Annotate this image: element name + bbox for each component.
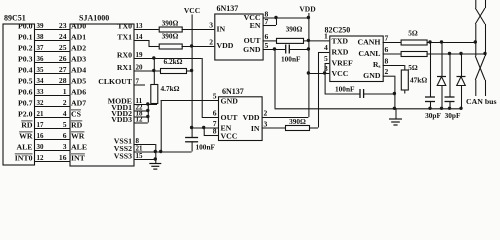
svg-text:AD2: AD2: [71, 44, 86, 53]
wire 89C51 P0.1 (pin 38) to SJA1000 (pin 24): [34, 40, 70, 42]
wire VSS2 (pin21) ground line to C4: [134, 151, 192, 153]
svg-text:P0.7: P0.7: [18, 99, 33, 108]
junction dot VREF-VCC vertical: [323, 71, 326, 74]
svg-text:4: 4: [324, 43, 328, 52]
svg-text:14: 14: [136, 33, 144, 41]
wire VREF stub down to VCC line: [325, 63, 330, 65]
svg-text:RD: RD: [71, 121, 83, 130]
svg-text:CAN bus: CAN bus: [466, 97, 497, 106]
svg-text:16: 16: [59, 153, 67, 162]
wire CLKOUT stub (pin7): [134, 84, 146, 86]
svg-text:CANL: CANL: [358, 49, 380, 58]
svg-text:6N137: 6N137: [222, 87, 244, 96]
svg-text:TX1: TX1: [117, 33, 132, 42]
wire U3 GND pin5 to C2: [263, 49, 286, 51]
svg-text:25: 25: [59, 43, 67, 52]
svg-text:30pF: 30pF: [445, 111, 461, 120]
svg-text:CANH: CANH: [358, 38, 381, 47]
svg-text:23: 23: [59, 21, 67, 30]
svg-text:RD: RD: [21, 121, 33, 130]
wire VSS3 (pin15): [134, 159, 156, 161]
svg-text:AD7: AD7: [71, 99, 86, 108]
wire R4 to VCC rail: [186, 70, 192, 72]
svg-text:RXD: RXD: [332, 48, 349, 57]
junction dot CANL to bus: [483, 52, 486, 55]
wire 89C51 INT0 (pin 12) to SJA1000 (pin 16): [34, 161, 70, 163]
junction dot GND rail: [393, 107, 396, 110]
svg-text:3: 3: [209, 21, 213, 30]
svg-text:30: 30: [37, 143, 45, 151]
svg-text:35: 35: [37, 66, 45, 74]
wire MODE to VDD1/VDD2/VDD3 vertical tie: [147, 104, 149, 123]
svg-text:30pF: 30pF: [425, 111, 441, 120]
capacitor C3 100nF under 82C250: [325, 93, 360, 95]
svg-text:VREF: VREF: [332, 59, 353, 68]
svg-text:INT0: INT0: [15, 154, 33, 163]
junction dot VCC on RX1 line: [190, 69, 193, 72]
wire R9 bottom to C3 ground line: [404, 90, 406, 94]
junction dot C3 to GND vertical: [393, 92, 396, 95]
svg-text:15: 15: [136, 152, 144, 160]
wire VDD1 (pin22): [134, 110, 148, 112]
svg-text:AD1: AD1: [71, 33, 86, 42]
junction dot VSS3: [154, 157, 157, 160]
resistor R5 390ohm pull-up on OUT: [277, 38, 304, 43]
svg-text:WR: WR: [19, 132, 33, 141]
svg-text:3: 3: [63, 142, 67, 151]
svg-text:27: 27: [59, 65, 67, 74]
wire CANL pin6 to R8: [383, 53, 401, 55]
svg-text:24: 24: [59, 32, 67, 41]
wire VCC pin3 from VDD rail: [308, 73, 329, 75]
svg-text:39: 39: [37, 22, 45, 30]
wire 89C51 P0.7 (pin 32) to SJA1000 (pin 2): [34, 106, 70, 108]
junction dot EN-VCC tie U4: [202, 126, 205, 129]
svg-text:RX1: RX1: [117, 63, 132, 72]
VCC vertical rail down to U4 EN line: [191, 15, 193, 128]
svg-text:4.7kΩ: 4.7kΩ: [161, 84, 180, 93]
svg-text:17: 17: [37, 121, 45, 129]
svg-text:ALE: ALE: [71, 143, 87, 152]
wire R7 to twisted pair: [427, 42, 476, 44]
resistor R3 4.7kohm vertical RX1 to MODE line: [153, 71, 155, 85]
wire 89C51 P0.6 (pin 33) to SJA1000 (pin 1): [34, 95, 70, 97]
svg-text:5Ω: 5Ω: [408, 63, 418, 72]
svg-text:EN: EN: [250, 21, 261, 30]
resistor R8 5ohm in CANL line: [401, 52, 427, 57]
svg-text:4: 4: [63, 109, 67, 118]
wire TX1 (pin14) jog down: [134, 40, 149, 42]
ground symbol under SJA1000: [155, 162, 157, 165]
svg-text:5Ω: 5Ω: [408, 29, 418, 38]
junction dot VCC at U4 EN line: [190, 126, 193, 129]
wire R2 to 6N137 U3 pin2, VCC junction: [182, 46, 215, 48]
wire R8 to twisted pair: [427, 53, 485, 55]
wire U3 OUT pin6 to R5 and 82C250 TXD: [263, 40, 276, 42]
ground symbol under rail: [395, 108, 397, 118]
svg-text:P0.6: P0.6: [18, 88, 33, 97]
wire 89C51 WR (pin 16) to SJA1000 (pin 6): [34, 139, 70, 141]
wire 89C51 ALE (pin 30) to SJA1000 (pin 3): [34, 150, 70, 152]
wire Rs pin8 to R9: [383, 65, 405, 67]
svg-text:VCC: VCC: [221, 132, 238, 141]
svg-text:P0.3: P0.3: [18, 55, 33, 64]
svg-text:IN: IN: [251, 124, 260, 133]
wire U4 GND pin5 to SJA ground: [161, 100, 218, 102]
svg-text:36: 36: [37, 55, 45, 63]
wire 89C51 P0.5 (pin 34) to SJA1000 (pin 28): [34, 84, 70, 86]
svg-text:2: 2: [264, 109, 268, 118]
wire 89C51 P2.0 (pin 21) to SJA1000 (pin 4): [34, 117, 70, 119]
svg-text:TX0: TX0: [117, 22, 132, 31]
wire GND drop to VSS rail: [160, 100, 162, 152]
svg-text:390Ω: 390Ω: [162, 32, 179, 41]
junction dot U3 GND to isolated ground: [273, 47, 276, 50]
capacitor C2 100nF plates: [285, 45, 287, 54]
svg-text:82C250: 82C250: [325, 26, 351, 35]
svg-text:GND: GND: [243, 45, 261, 54]
wire U3 EN pin7 tie to VCC pin8: [263, 25, 276, 27]
junction dot C2-VDD: [307, 47, 310, 50]
svg-text:GND: GND: [363, 71, 381, 80]
svg-text:2: 2: [63, 98, 67, 107]
wire 89C51 P0.2 (pin 37) to SJA1000 (pin 25): [34, 51, 70, 53]
svg-text:P0.1: P0.1: [18, 33, 33, 42]
wire R6 to RXD vertical: [309, 127, 318, 129]
svg-text:VDD3: VDD3: [111, 115, 132, 124]
capacitor C6 30pF on CANL: [448, 52, 451, 55]
wire ground rail: [275, 108, 462, 110]
svg-text:Rs: Rs: [373, 60, 381, 70]
svg-text:390Ω: 390Ω: [162, 19, 179, 28]
wire MODE (pin11) line: [134, 104, 158, 106]
svg-text:GND: GND: [221, 97, 239, 106]
svg-text:6: 6: [213, 109, 217, 118]
svg-text:47kΩ: 47kΩ: [410, 76, 427, 85]
svg-text:13: 13: [136, 22, 144, 30]
junction dot on RX1 line: [152, 69, 155, 72]
junction dot GND return: [159, 150, 162, 153]
svg-text:6: 6: [385, 45, 389, 54]
svg-text:37: 37: [37, 44, 45, 52]
svg-text:AD5: AD5: [71, 77, 86, 86]
wire VSS ground vertical: [155, 144, 157, 163]
svg-text:TXD: TXD: [332, 37, 349, 46]
svg-text:P0.5: P0.5: [18, 77, 33, 86]
resistor R4 6.2kohm in RX1 line: [161, 69, 187, 74]
wire 89C51 P0.4 (pin 35) to SJA1000 (pin 27): [34, 73, 70, 75]
svg-text:INT: INT: [71, 154, 86, 163]
wire CANH pin7 to R7: [383, 42, 401, 44]
junction dot MODE-VDD tie: [146, 102, 149, 105]
wire ground drop from U3 GND to CAN ground rail: [274, 49, 276, 108]
svg-text:8: 8: [385, 56, 389, 65]
svg-text:7: 7: [385, 34, 389, 43]
svg-text:AD3: AD3: [71, 55, 86, 64]
svg-text:RX0: RX0: [117, 51, 132, 60]
wire R3 bottom to MODE line: [153, 103, 155, 105]
wire 82C250 GND pin2 down to ground rail: [383, 75, 395, 77]
svg-text:AD6: AD6: [71, 88, 86, 97]
resistor R6 390ohm in RXD line: [286, 126, 310, 131]
wire 89C51 P0.3 (pin 36) to SJA1000 (pin 26): [34, 62, 70, 64]
wire U3 VCC pin8 to VDD rail: [263, 17, 309, 19]
svg-text:38: 38: [37, 33, 45, 41]
svg-text:2: 2: [385, 67, 389, 76]
svg-text:7: 7: [136, 77, 140, 85]
svg-text:VCC: VCC: [332, 69, 349, 78]
diode D1 transient protection on CANH: [440, 40, 443, 43]
svg-text:5: 5: [213, 92, 217, 101]
twisted pair CAN bus wires: [475, 0, 477, 8]
junction dot EN-VCC: [274, 16, 277, 19]
VDD vertical rail: [308, 13, 310, 117]
svg-text:P0.0: P0.0: [18, 22, 33, 31]
svg-text:6N137: 6N137: [217, 4, 239, 13]
svg-text:16: 16: [37, 132, 45, 140]
svg-text:VDD: VDD: [299, 5, 316, 14]
wire divider vertical RX0 to RX1 to R3: [153, 58, 155, 71]
svg-text:2: 2: [209, 38, 213, 47]
svg-text:OUT: OUT: [244, 36, 262, 45]
svg-text:VDD: VDD: [243, 113, 260, 122]
svg-text:3: 3: [264, 119, 268, 128]
junction dot VCC-VDD rail: [307, 71, 310, 74]
svg-text:32: 32: [37, 99, 45, 107]
IC SJA1000 CAN controller box: [70, 24, 134, 166]
svg-text:28: 28: [59, 76, 67, 85]
wire 89C51 RD (pin 17) to SJA1000 (pin 5): [34, 128, 70, 130]
junction dot VDD2: [146, 115, 149, 118]
svg-text:390Ω: 390Ω: [286, 25, 303, 34]
wire U4 VDD pin2 from VDD rail: [262, 117, 309, 119]
svg-text:390Ω: 390Ω: [289, 117, 306, 126]
svg-text:100nF: 100nF: [196, 143, 216, 152]
svg-text:1: 1: [63, 87, 67, 96]
svg-text:P0.2: P0.2: [18, 44, 33, 53]
svg-text:VSS3: VSS3: [114, 152, 132, 161]
svg-text:5: 5: [265, 41, 269, 50]
svg-text:5: 5: [324, 54, 328, 63]
capacitor C4 100nF VCC decoupling vertical: [191, 128, 193, 138]
wire RX1 (pin20) to R4 6.2k: [134, 70, 161, 72]
svg-text:100nF: 100nF: [335, 85, 355, 94]
wire RXD vertical up to 82C250 pin4: [318, 52, 320, 128]
wire U4 EN pin7 line to VCC rail: [192, 127, 218, 129]
wire VSS1 (pin8): [134, 144, 156, 146]
svg-text:IN: IN: [217, 25, 226, 34]
capacitor C5 30pF on CANH: [428, 40, 431, 43]
wire VDD3 (pin12): [134, 122, 148, 124]
svg-text:6.2kΩ: 6.2kΩ: [163, 57, 182, 66]
svg-text:20: 20: [136, 63, 144, 71]
svg-text:33: 33: [37, 88, 45, 96]
svg-text:34: 34: [37, 77, 45, 85]
IC 6N137 optocoupler U3 box: [215, 14, 263, 60]
wire C2 to VDD rail: [289, 49, 309, 51]
svg-text:19: 19: [136, 51, 144, 59]
svg-text:AD4: AD4: [71, 66, 86, 75]
junction dot RX0 divider tap: [152, 56, 155, 59]
junction dot OUT pull-up at VDD rail: [307, 39, 310, 42]
wire U4 IN pin3 to R6: [262, 127, 285, 129]
svg-text:VCC: VCC: [184, 6, 200, 15]
svg-text:6: 6: [63, 131, 67, 140]
wire VDD2 (pin18): [134, 116, 148, 118]
wire TX0 (pin13) to R1 and 6N137 U3 pin3: [134, 29, 159, 31]
svg-text:12: 12: [37, 154, 45, 162]
resistor R7 5ohm in CANH line: [401, 40, 427, 45]
junction dot VDD-U3pin8: [307, 16, 310, 19]
svg-text:P0.4: P0.4: [18, 66, 33, 75]
resistor R1 390ohm in TX0 line: [159, 27, 182, 32]
svg-text:ALE: ALE: [16, 143, 32, 152]
svg-text:P2.0: P2.0: [18, 110, 33, 119]
svg-text:OUT: OUT: [221, 113, 239, 122]
junction dot VDD1: [146, 109, 149, 112]
svg-text:21: 21: [37, 110, 45, 118]
wire 89C51 P0.0 (pin 39) to SJA1000 (pin 23): [34, 29, 70, 31]
svg-text:CLKOUT: CLKOUT: [98, 77, 133, 86]
wire U4 VCC pin8 jog to EN line: [204, 135, 218, 137]
wire RX0 (pin19) right then down to U4 pin6: [134, 58, 202, 60]
junction dot VSS2: [154, 150, 157, 153]
IC 89C51 microcontroller box: [3, 24, 35, 165]
svg-text:WR: WR: [71, 132, 85, 141]
junction dot VCC on U3 pin2 line: [190, 44, 193, 47]
svg-text:5: 5: [63, 120, 67, 129]
svg-text:CS: CS: [71, 110, 81, 119]
junction dot CANH to bus: [474, 40, 477, 43]
svg-text:1: 1: [324, 32, 328, 41]
diode D2 transient protection on CANL: [459, 52, 462, 55]
resistor R2 390ohm in TX1 line: [159, 44, 182, 49]
IC 82C250 CAN transceiver box: [330, 36, 383, 82]
resistor R9 47kohm vertical slope resistor: [404, 65, 406, 70]
svg-text:VDD: VDD: [217, 41, 234, 50]
svg-text:AD0: AD0: [71, 22, 86, 31]
svg-text:100nF: 100nF: [281, 55, 301, 64]
svg-text:26: 26: [59, 54, 67, 63]
IC 6N137 optocoupler U4 box: [219, 97, 263, 141]
